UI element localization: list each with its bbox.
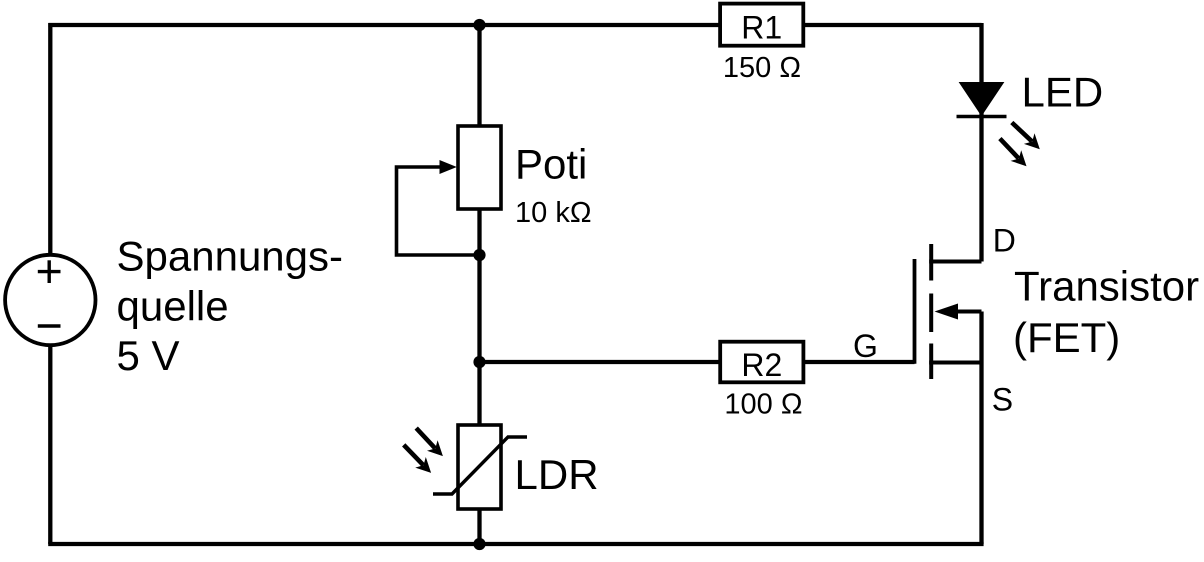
potentiometer wiper wire (397, 167, 480, 255)
svg-text:quelle: quelle (117, 282, 229, 329)
wire top rail (48, 23, 981, 27)
junction node gate branch (473, 356, 485, 368)
svg-text:D: D (993, 223, 1016, 259)
svg-text:5 V: 5 V (117, 332, 180, 379)
junction node bottom (473, 538, 485, 550)
junction node top (473, 19, 485, 31)
wire middle branch (477, 25, 481, 544)
svg-text:G: G (853, 328, 878, 364)
transistor body arrow wire (955, 310, 982, 314)
svg-text:S: S (992, 382, 1013, 418)
LED light arrow 2 (1000, 139, 1019, 159)
voltage source V1 circle (5, 255, 95, 345)
wire left rail lower (48, 346, 52, 544)
svg-text:Poti: Poti (515, 141, 587, 188)
wire right upper (LED branch) (979, 23, 983, 262)
wire bottom rail (48, 542, 983, 546)
svg-text:(FET): (FET) (1013, 314, 1120, 361)
svg-text:LDR: LDR (515, 451, 599, 498)
svg-text:10 kΩ: 10 kΩ (515, 197, 592, 229)
svg-text:150 Ω: 150 Ω (723, 52, 801, 84)
transistor drain connection (929, 260, 981, 264)
wire left rail (48, 23, 52, 255)
LED diode triangle (961, 83, 1003, 115)
svg-text:Spannungs-: Spannungs- (117, 233, 344, 280)
resistor R1 (720, 4, 803, 46)
wire gate branch (R2 line) (480, 360, 915, 364)
LDR body (458, 425, 501, 509)
svg-text:Transistor: Transistor (1014, 263, 1199, 310)
transistor channel segment 2 (929, 294, 933, 333)
wire right lower (source to bottom) (979, 312, 983, 545)
potentiometer wiper arrowhead (440, 160, 457, 174)
resistor R2 (720, 342, 803, 383)
transistor channel segment 3 (929, 344, 933, 380)
transistor channel segment 1 (929, 244, 933, 281)
potentiometer Poti body (458, 126, 501, 209)
voltage source plus sign (38, 260, 61, 283)
junction node wiper return (473, 249, 485, 261)
LDR diagonal stroke (433, 437, 527, 494)
transistor Q1 gate line (913, 259, 917, 364)
LDR light arrow 2 (404, 445, 424, 465)
LDR light arrow 1 (416, 428, 435, 448)
svg-text:R1: R1 (741, 10, 782, 46)
voltage source minus sign (38, 324, 61, 327)
svg-text:100 Ω: 100 Ω (724, 389, 802, 421)
svg-text:LED: LED (1022, 68, 1104, 115)
transistor body arrowhead (935, 304, 959, 320)
LED light arrow 1 (1012, 123, 1032, 142)
LED cathode bar (957, 115, 1007, 119)
transistor source connection (929, 361, 981, 365)
svg-text:R2: R2 (741, 347, 782, 383)
